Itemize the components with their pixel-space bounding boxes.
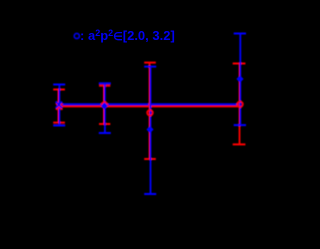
point3 red circle marker (147, 110, 153, 116)
point1 red x marker (56, 103, 62, 109)
point2 blue diamond marker (101, 102, 108, 109)
blue series line (58, 103, 241, 105)
point1 blue x marker (56, 102, 62, 108)
point2 red circle marker (102, 102, 108, 108)
red series line (58, 105, 241, 107)
point1 red errorbar (53, 90, 65, 123)
point2 red errorbar (99, 86, 110, 124)
point3 blue diamond marker (146, 126, 153, 133)
point3 blue errorbar (144, 67, 156, 194)
point1 blue errorbar (53, 85, 65, 126)
point4 blue errorbar (234, 34, 246, 126)
legend text (64, 28, 175, 43)
point4 red circle marker (237, 102, 243, 108)
point2 blue errorbar (99, 83, 111, 133)
point4 red errorbar (233, 64, 246, 145)
point3 red errorbar (144, 63, 156, 159)
point4 blue diamond marker (236, 75, 243, 82)
legend circle marker (74, 33, 79, 38)
